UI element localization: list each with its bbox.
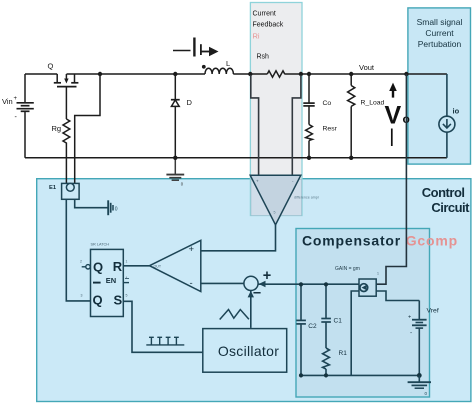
svg-text:difference ampl: difference ampl: [294, 196, 319, 200]
svg-text:Oscillator: Oscillator: [218, 343, 279, 359]
wire: comparator minus input from summer: [201, 282, 244, 284]
svg-text:Co: Co: [323, 100, 332, 107]
ground (compensator): [408, 375, 431, 388]
resistor R1: [323, 348, 330, 375]
wire: Q to inductor: [67, 73, 206, 75]
svg-text:R1: R1: [339, 350, 348, 357]
svg-text:4: 4: [126, 276, 128, 280]
summing junction: [244, 276, 258, 290]
Vo minus line: [391, 129, 393, 147]
current source io: [439, 74, 455, 158]
resistor Rsh: [267, 71, 284, 77]
node: drain junction: [98, 72, 102, 76]
wire: flip-flop R to comparator: [123, 265, 149, 267]
node: Vout feedback junction: [404, 72, 408, 76]
oscillator block: [203, 329, 287, 373]
flip-flop EN stub: [123, 282, 129, 284]
svg-text:Control: Control: [422, 185, 465, 200]
node: diode ground junction: [173, 156, 177, 160]
svg-text:GAIN = gm: GAIN = gm: [335, 266, 360, 272]
wire: inductor to Rsh: [233, 73, 267, 75]
difference amplifier highlight: [251, 179, 302, 215]
battery Vin: [17, 103, 34, 112]
svg-text:–: –: [253, 285, 261, 301]
Q-bar overbar: [93, 282, 101, 284]
diode D: [171, 74, 180, 158]
wire: drain jog down to E1: [75, 74, 100, 187]
svg-text:0: 0: [115, 207, 118, 213]
capacitor C2: [296, 284, 306, 375]
svg-text:2: 2: [80, 260, 82, 264]
node: Co top: [307, 72, 311, 76]
battery Vref: [412, 301, 427, 376]
node: Vref ground junction: [417, 373, 422, 378]
wire: comparator plus input from difference amplifier: [201, 225, 276, 251]
svg-text:EN: EN: [106, 276, 116, 285]
label: Current Feedback Ri: [253, 11, 284, 41]
node: Rsh left: [248, 72, 252, 76]
transformer block E1: [62, 183, 80, 199]
wire: gm to Vref: [376, 291, 419, 301]
wire: flip-flop S to oscillator: [123, 301, 203, 352]
wire: Vin vertical bottom: [24, 111, 26, 158]
svg-text:L: L: [226, 59, 230, 68]
svg-text:Circuit: Circuit: [431, 200, 470, 215]
svg-text:-: -: [410, 330, 412, 337]
ground (power stage): [166, 158, 184, 180]
svg-text:SR LATCH: SR LATCH: [91, 243, 110, 247]
svg-text:Feedback: Feedback: [253, 22, 284, 29]
capacitor C1: [321, 284, 331, 348]
wire: Vout feedback down to compensator: [376, 74, 406, 284]
Q body arrow: [64, 79, 68, 84]
node: Rsh right: [299, 72, 303, 76]
wire: E1 ground stub: [75, 199, 108, 207]
label: Control Circuit: [422, 185, 470, 215]
svg-text:Vout: Vout: [359, 63, 375, 72]
control circuit region box: [37, 179, 471, 402]
svg-text:3: 3: [81, 294, 83, 298]
svg-text:S: S: [114, 293, 123, 308]
node: R1 bottom: [324, 373, 328, 377]
inductor current IL marker: [173, 38, 209, 57]
svg-text:io: io: [453, 107, 460, 116]
svg-text:+: +: [256, 179, 259, 184]
svg-text:+: +: [189, 244, 195, 255]
svg-text:E1: E1: [49, 185, 57, 191]
svg-text:Vin: Vin: [2, 97, 13, 106]
svg-text:5: 5: [126, 294, 128, 298]
svg-text:-: -: [190, 278, 193, 289]
svg-text:Rsh: Rsh: [257, 54, 270, 61]
inductor L: [205, 68, 233, 74]
OTA gm block: [359, 279, 376, 296]
resistor Resr: [306, 125, 313, 158]
svg-text:1: 1: [377, 272, 379, 276]
svg-text:R: R: [113, 259, 123, 274]
flip-flop Qbar bubble: [86, 265, 90, 269]
svg-text:R_Load: R_Load: [361, 100, 385, 107]
svg-text:OUT: OUT: [154, 265, 162, 269]
inductor phase dot: [202, 65, 206, 69]
wire: Rsh to io branch corner: [285, 73, 447, 75]
wire: current sense left: [251, 75, 259, 175]
op-amp difference amplifier: [250, 175, 301, 225]
svg-text:Ri: Ri: [253, 32, 260, 41]
node: R_Load bottom: [349, 156, 353, 160]
sawtooth icon: [220, 310, 249, 320]
svg-text:Q: Q: [48, 62, 54, 71]
label: Small signal Current Pertubation: [417, 17, 463, 49]
svg-text:Q: Q: [93, 293, 103, 308]
current feedback Ri box border: [250, 3, 302, 216]
svg-text:D: D: [187, 98, 193, 107]
svg-text:Current: Current: [425, 28, 454, 38]
wire: gm ground leg: [351, 291, 359, 375]
svg-text:C1: C1: [334, 318, 343, 325]
resistor R_Load: [348, 74, 355, 158]
label: Vin: [2, 96, 18, 121]
svg-text:V: V: [385, 102, 402, 130]
svg-text:Resr: Resr: [323, 126, 338, 133]
svg-text:1: 1: [126, 260, 128, 264]
Vo annotation arrow: [392, 89, 394, 98]
svg-text:Pertubation: Pertubation: [418, 39, 462, 49]
svg-text:Rg: Rg: [52, 124, 62, 133]
svg-text:Current: Current: [253, 11, 276, 18]
resistor Rg: [63, 87, 70, 187]
svg-text:Q: Q: [93, 260, 103, 275]
svg-text:5: 5: [274, 211, 276, 215]
svg-text:Compensator Gcomp: Compensator Gcomp: [302, 233, 458, 249]
pulse train icon: [146, 337, 184, 345]
node: diode top: [173, 72, 177, 76]
svg-text:Vref: Vref: [427, 308, 439, 315]
wire: Vin top to Q: [25, 73, 57, 75]
svg-text:+: +: [14, 96, 18, 102]
wire: compensator bottom rail: [301, 374, 419, 376]
wire: compensator output to summer (arrow): [259, 283, 360, 285]
small signal current perturbation box: [408, 8, 471, 164]
node: C2 bottom: [299, 373, 303, 377]
wire: current sense right: [292, 75, 301, 175]
svg-text:C2: C2: [308, 323, 317, 330]
compensator Gcomp box: [296, 229, 430, 398]
node: R_Load top: [349, 72, 353, 76]
wire: Vin vertical top: [24, 74, 26, 103]
svg-text:Small signal: Small signal: [417, 17, 463, 27]
ground (E1, sideways): [108, 200, 113, 215]
wire: oscillator to summer (arrow): [250, 291, 252, 328]
comparator U2: [150, 240, 201, 291]
node: C2 top: [299, 282, 303, 286]
wire: bottom ground rail: [25, 157, 447, 159]
flip-flop SR latch: [91, 249, 124, 316]
wire: E1 to flip-flop Q: [66, 199, 90, 301]
node: Resr bottom: [307, 156, 311, 160]
current feedback Ri box (upper gray part): [250, 3, 302, 179]
node: C1 top: [324, 282, 328, 286]
svg-text:+: +: [408, 315, 411, 321]
current feedback Ri box (lower part over blue): [250, 179, 302, 216]
transistor Q (MOSFET): [54, 74, 79, 87]
capacitor Co: [303, 74, 314, 125]
